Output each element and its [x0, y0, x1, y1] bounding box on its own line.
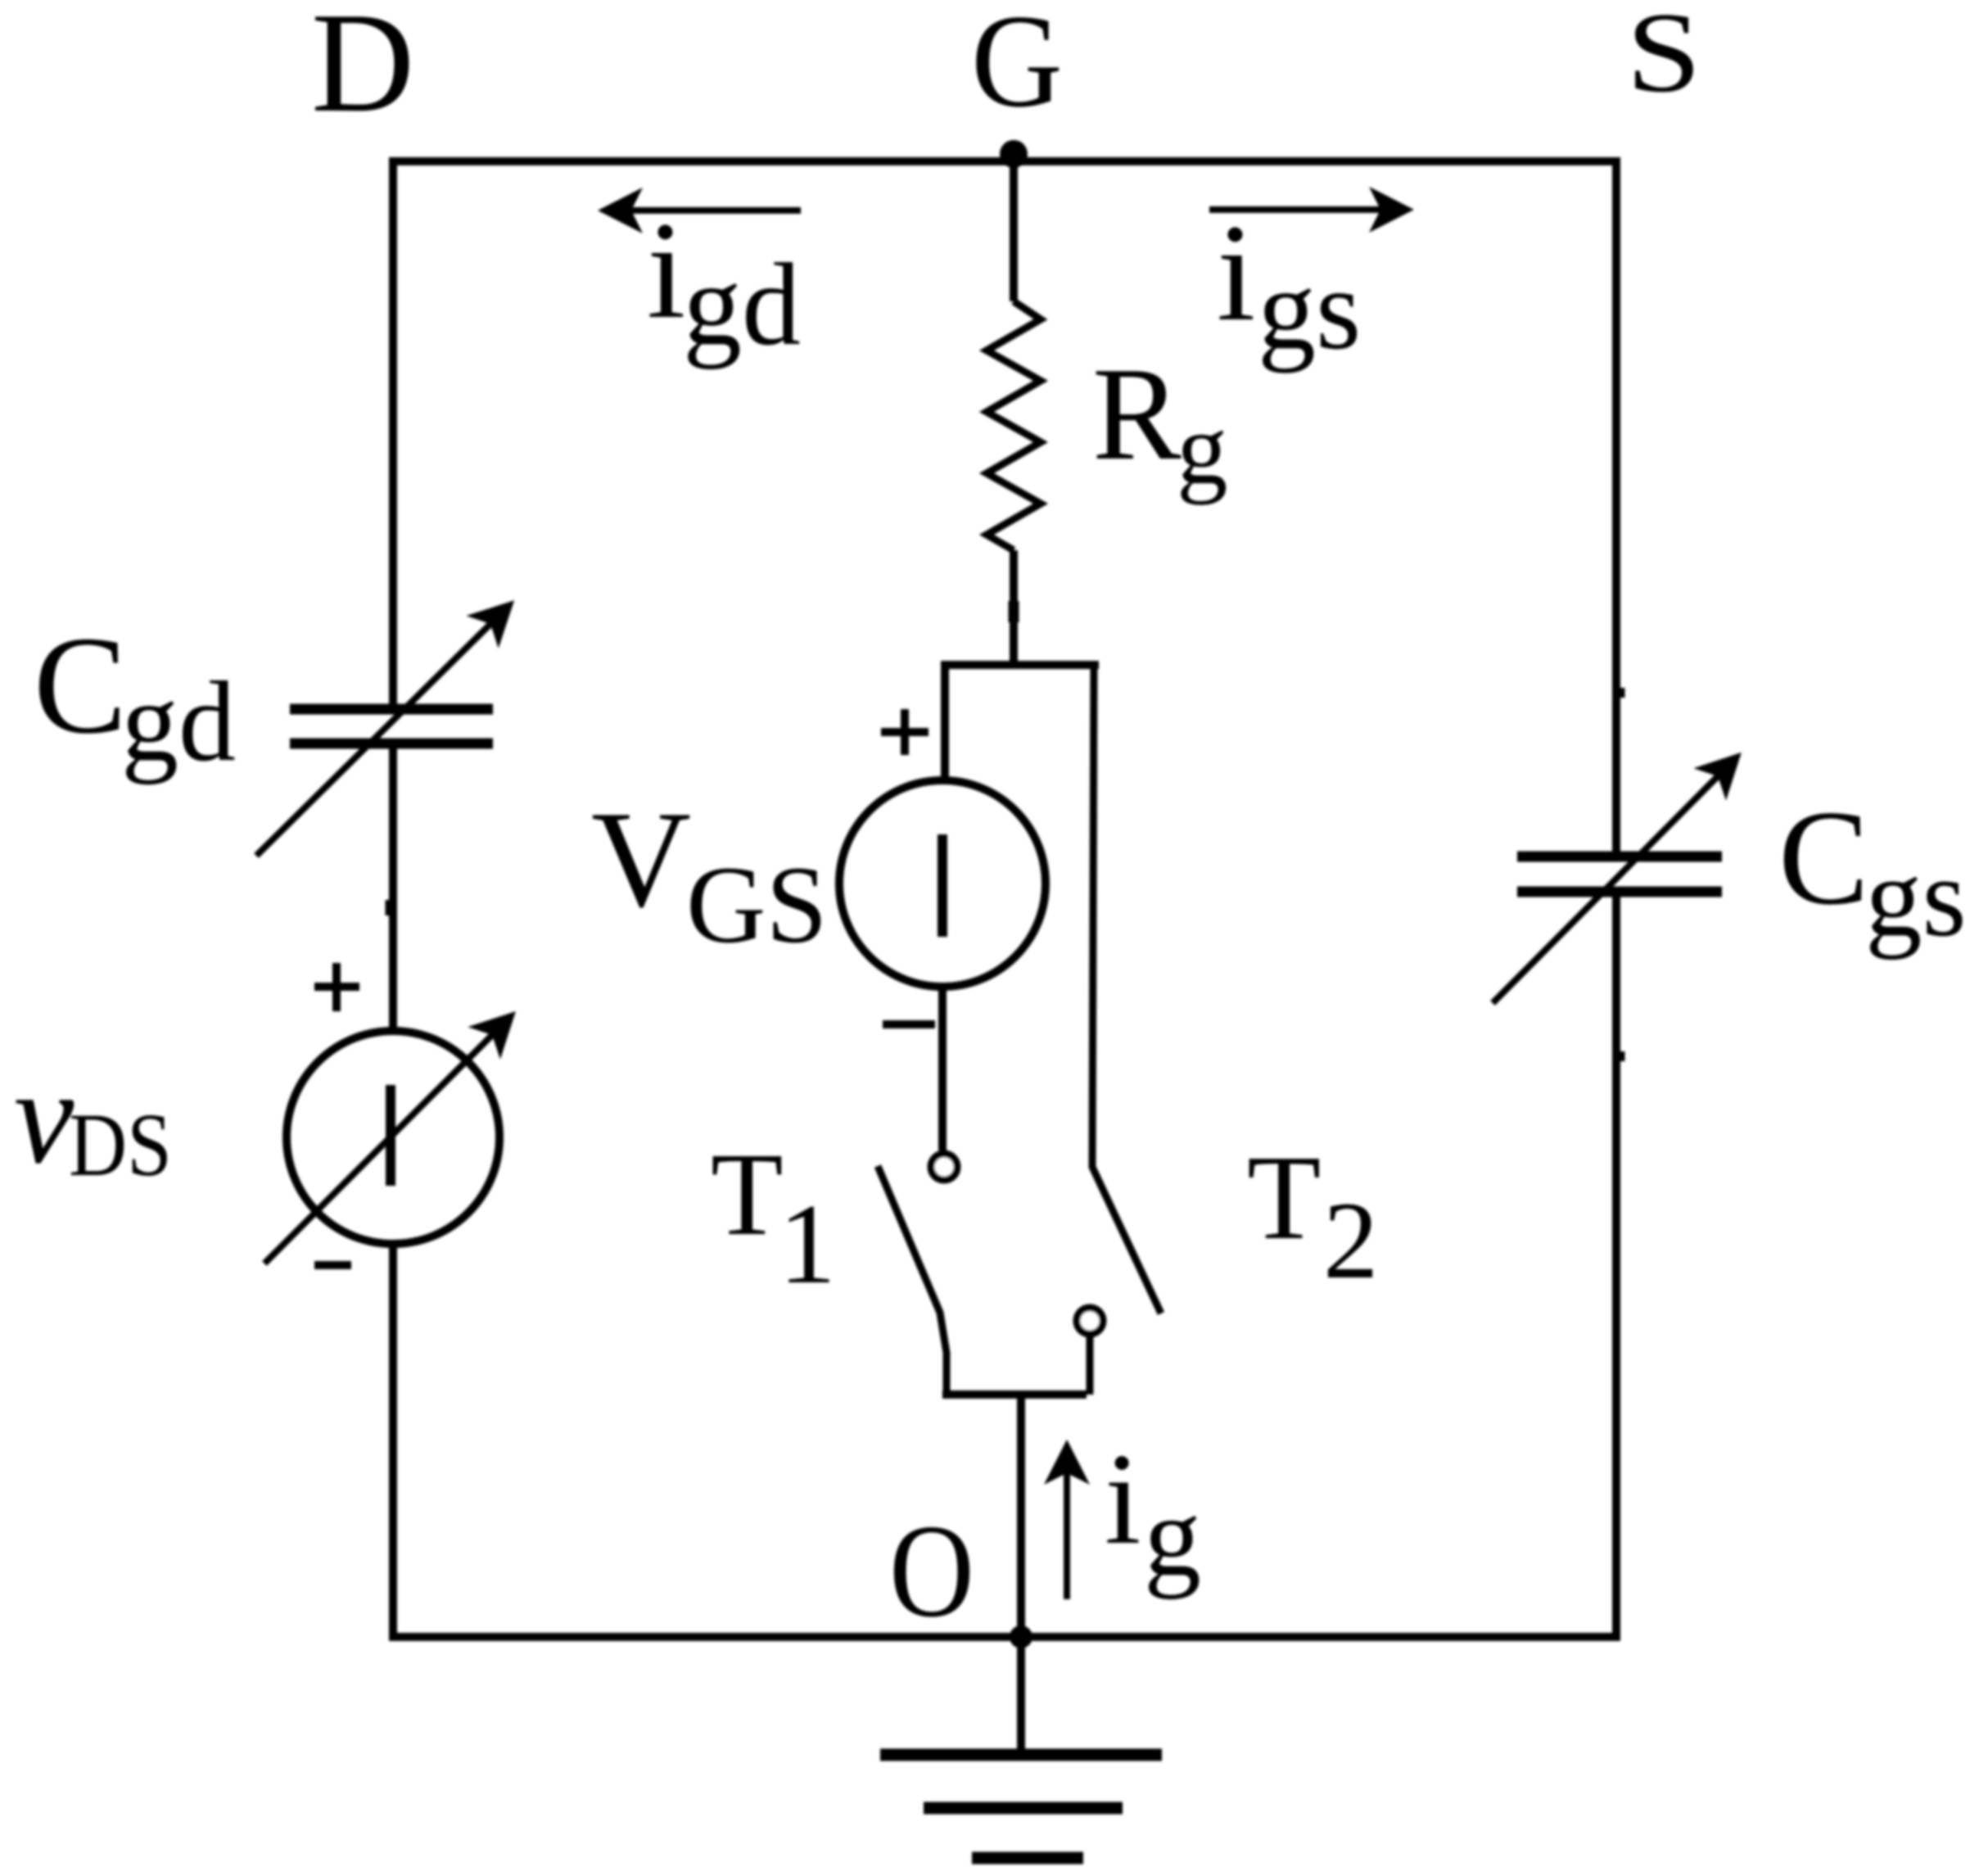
svg-text:gd: gd [121, 658, 236, 785]
svg-text:D: D [311, 0, 414, 142]
svg-text:g: g [1177, 393, 1228, 506]
svg-text:gd: gd [683, 240, 801, 370]
svg-text:T: T [1247, 1131, 1321, 1265]
svg-text:i: i [1105, 1426, 1141, 1571]
svg-text:O: O [889, 1498, 974, 1645]
svg-text:C: C [1778, 782, 1869, 933]
svg-text:S: S [1626, 0, 1701, 116]
svg-text:v: v [14, 1042, 75, 1191]
svg-text:gs: gs [1865, 834, 1967, 961]
svg-text:i: i [647, 193, 685, 347]
svg-text:g: g [1144, 1473, 1201, 1600]
svg-text:R: R [1092, 341, 1182, 488]
svg-text:V: V [591, 782, 691, 936]
svg-text:2: 2 [1323, 1180, 1379, 1302]
svg-text:T: T [711, 1129, 784, 1260]
svg-text:DS: DS [69, 1095, 172, 1195]
svg-text:gs: gs [1258, 244, 1361, 373]
svg-text:1: 1 [779, 1181, 836, 1308]
svg-text:C: C [34, 608, 127, 762]
svg-text:GS: GS [686, 844, 828, 966]
svg-text:G: G [971, 0, 1063, 135]
svg-text:i: i [1217, 196, 1255, 350]
